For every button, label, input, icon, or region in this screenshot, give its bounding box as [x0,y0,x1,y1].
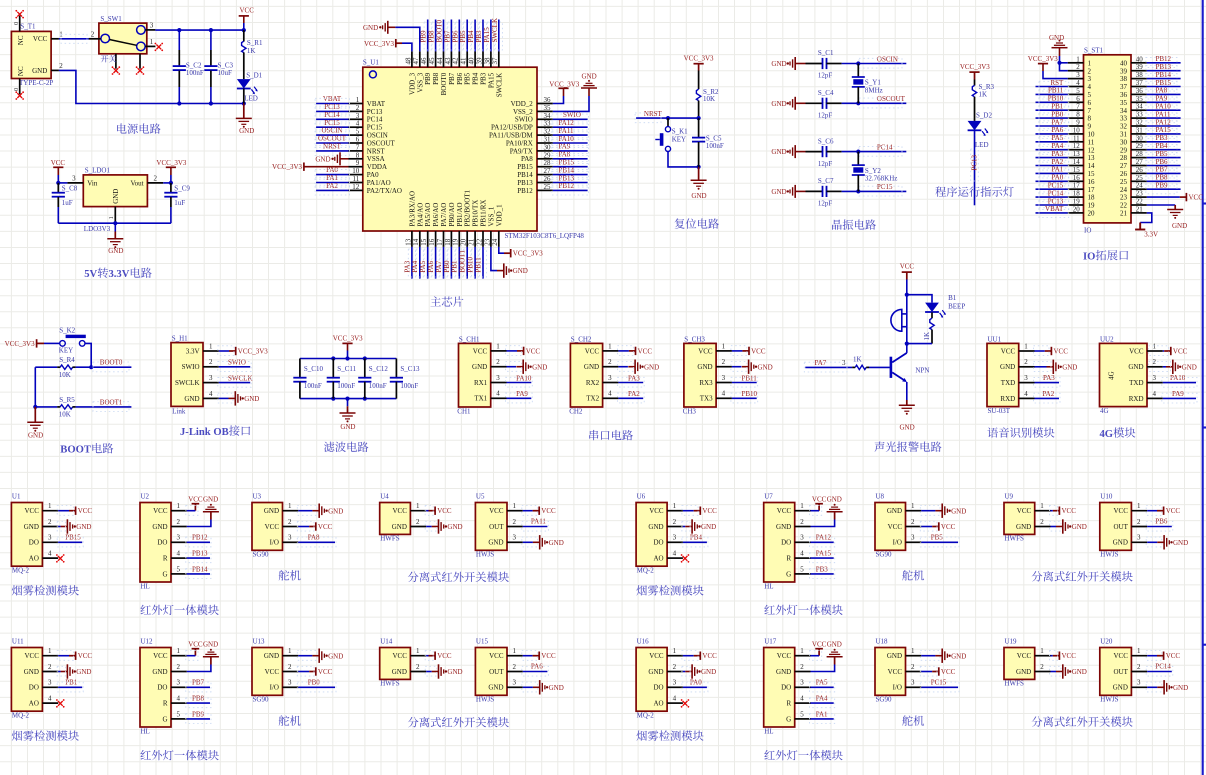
svg-text:VCC: VCC [1113,507,1128,515]
mcu U1 STM32F103C8T6 body [363,58,585,240]
wire VCC_3V3 to pin 48 [396,43,412,51]
svg-text:33: 33 [1136,111,1144,119]
mcu U1 pins right [537,96,553,191]
svg-text:R: R [163,555,168,563]
svg-text:PA12: PA12 [816,534,832,542]
svg-text:4: 4 [1076,79,1080,87]
ground top at U7 [811,496,843,527]
svg-text:PB5: PB5 [459,30,467,43]
svg-text:PB6: PB6 [456,72,464,85]
svg-text:GND: GND [315,156,330,164]
svg-text:GND: GND [549,539,564,547]
power port VCC top right [239,6,255,30]
svg-text:PB7: PB7 [443,30,451,43]
svg-text:14: 14 [1073,158,1081,166]
svg-text:1: 1 [209,342,213,350]
svg-text:GND: GND [24,668,39,676]
svg-text:1: 1 [108,216,115,219]
svg-text:1: 1 [722,342,726,350]
ground symbol above U1 pin 47 [363,21,395,34]
svg-text:13: 13 [404,238,412,246]
svg-text:11: 11 [1088,138,1095,146]
module U9 HWFS body [1004,493,1051,543]
connector T1 TYPE-C-2P [11,16,63,95]
svg-text:PB13: PB13 [517,179,533,187]
caption 红外灯一体模块 row1 [140,605,218,615]
header CH3 body [683,335,732,415]
svg-text:PB13: PB13 [192,550,208,558]
svg-text:UU1: UU1 [988,335,1002,343]
power port VCC_3V3 at LDO output [156,159,186,183]
svg-text:VDD_2: VDD_2 [511,100,534,108]
svg-text:TXD: TXD [1001,379,1015,387]
svg-text:1: 1 [1088,59,1092,67]
power port VCC alarm [900,263,915,295]
module U2 HL body [140,493,187,591]
svg-text:VCC: VCC [649,507,664,515]
wires U1 top pins 46-37 with net labels [420,18,503,51]
svg-text:29: 29 [1120,146,1128,154]
svg-text:S_Y1: S_Y1 [865,79,881,87]
svg-text:GND: GND [28,431,43,439]
svg-text:DO: DO [653,539,663,547]
svg-text:PA2: PA2 [628,390,640,398]
caption 烟雾检测模块 row2 [636,730,703,740]
svg-text:PB1: PB1 [1051,103,1064,111]
svg-text:S_SW1: S_SW1 [100,15,122,23]
svg-text:8: 8 [356,151,360,159]
svg-text:NC: NC [17,66,25,76]
power VCC at U8 pin2 [920,521,955,531]
svg-text:GND: GND [1016,668,1031,676]
svg-text:KEY: KEY [59,346,73,354]
svg-text:GND: GND [584,363,599,371]
power VCC at U5 pin1 [522,506,556,516]
caption IO expansion [1083,250,1128,262]
svg-text:PA1: PA1 [326,174,338,182]
svg-text:VCC: VCC [638,347,653,355]
svg-text:PA4: PA4 [1051,142,1063,150]
svg-text:VCC: VCC [392,652,407,660]
svg-text:GND: GND [1072,668,1087,676]
svg-text:1: 1 [513,502,517,510]
svg-text:35: 35 [1136,95,1144,103]
svg-text:PC13: PC13 [324,103,340,111]
svg-text:VSS_1: VSS_1 [487,206,495,226]
net PB13 wire U2 [186,550,211,563]
caption 红外灯一体模块 row2 [764,750,842,760]
svg-text:J-Link OB: J-Link OB [180,427,229,438]
svg-text:VCC_3V3: VCC_3V3 [333,334,363,342]
svg-text:24: 24 [491,238,499,246]
ground symbol LDO [107,223,123,255]
svg-text:PB15: PB15 [517,163,533,171]
svg-text:KEY: KEY [672,135,686,143]
net PB5 wire U8 [920,534,959,547]
svg-text:PB10: PB10 [467,257,475,273]
svg-text:14: 14 [412,238,420,246]
svg-text:3: 3 [1024,374,1028,382]
svg-text:S_U1: S_U1 [363,58,379,66]
svg-text:2: 2 [177,518,181,526]
svg-text:PA11/USB/DM: PA11/USB/DM [489,132,534,140]
svg-text:PB14: PB14 [559,166,575,174]
LDO bottom rail wire [58,221,171,225]
svg-text:S_H1: S_H1 [172,334,188,342]
mcu U1 pins left [349,96,363,191]
svg-text:PA9/TX: PA9/TX [510,147,533,155]
ground symbol reset [691,167,707,200]
power VCC_3V3 at ST1 pin 3 [1028,55,1068,78]
svg-text:6: 6 [1076,95,1080,103]
svg-text:SWIO: SWIO [563,111,581,119]
svg-text:PA2: PA2 [326,182,338,190]
svg-text:VDD_3: VDD_3 [408,72,416,95]
svg-text:3: 3 [911,534,915,542]
svg-text:GND: GND [1000,363,1015,371]
svg-text:1uF: 1uF [62,199,73,207]
svg-text:GND: GND [1049,34,1064,42]
svg-text:10uF: 10uF [218,69,233,77]
svg-text:VCC: VCC [888,523,903,531]
svg-text:PC14: PC14 [1048,189,1064,197]
svg-text:GND: GND [1182,363,1197,371]
wires ST1 left net labels [1036,79,1069,218]
svg-text:GND: GND [697,363,712,371]
svg-text:TX3: TX3 [700,395,713,403]
svg-text:VCC: VCC [541,507,556,515]
svg-text:19: 19 [1073,198,1081,206]
svg-text:VSSA: VSSA [367,155,385,163]
svg-text:PA9: PA9 [1172,390,1184,398]
wire with net label PC15 [842,183,907,196]
svg-text:VCC: VCC [751,347,766,355]
svg-text:9: 9 [1076,119,1080,127]
svg-text:VCC_3V3: VCC_3V3 [5,340,35,348]
svg-text:U8: U8 [876,493,885,501]
svg-text:25: 25 [544,183,552,191]
ground symbol at S_C4 [771,97,805,110]
net PB1 wire U11 [57,679,83,692]
svg-text:U13: U13 [253,638,266,646]
svg-text:VCC: VCC [318,668,333,676]
svg-text:2: 2 [1137,663,1141,671]
svg-text:SWCLK: SWCLK [491,18,499,43]
svg-text:36: 36 [1120,91,1128,99]
svg-text:PB12: PB12 [517,187,533,195]
svg-text:PA5: PA5 [419,260,427,272]
svg-text:VCC_3V3: VCC_3V3 [1028,55,1058,63]
svg-text:2: 2 [356,104,360,112]
svg-text:1: 1 [177,502,181,510]
svg-text:R: R [787,555,792,563]
header CH2 body [569,335,618,415]
svg-text:4: 4 [722,390,726,398]
svg-text:PB10/TX: PB10/TX [472,200,480,227]
ground at U13 pin1 [297,649,343,663]
svg-text:40: 40 [1120,59,1128,67]
svg-text:26: 26 [1136,166,1144,174]
svg-text:VCC: VCC [1166,652,1181,660]
svg-text:PB8: PB8 [432,72,440,85]
svg-text:8: 8 [1088,115,1092,123]
wire with net label OSCOUT [842,95,907,108]
capacitor C2 100nF [173,30,204,103]
svg-text:S_D2: S_D2 [976,112,992,120]
module U12 HL body [140,638,187,736]
svg-text:4: 4 [800,695,804,703]
svg-text:38: 38 [1136,71,1144,79]
net PA3 wire UU1 [1034,374,1061,387]
svg-text:PA15: PA15 [483,27,491,43]
regulator LDO1 [67,167,163,233]
svg-text:GND: GND [244,395,259,403]
svg-text:G: G [162,715,167,723]
svg-text:S_R5: S_R5 [59,396,75,404]
svg-text:GND: GND [532,363,547,371]
svg-text:5: 5 [800,710,804,718]
svg-text:B1: B1 [948,294,957,302]
svg-text:5: 5 [800,565,804,573]
svg-text:10K: 10K [59,411,71,419]
svg-text:37: 37 [1136,79,1144,87]
svg-text:U7: U7 [764,493,773,501]
svg-text:GND: GND [363,24,378,32]
svg-text:3: 3 [177,679,181,687]
svg-text:PB5: PB5 [931,534,944,542]
svg-text:PA15: PA15 [1156,126,1172,134]
svg-text:AO: AO [29,700,39,708]
svg-text:GND: GND [900,423,915,431]
net PC15 wire U18 [920,679,959,692]
svg-text:10: 10 [1088,131,1096,139]
svg-text:3: 3 [288,679,292,687]
svg-text:27: 27 [544,167,552,175]
svg-text:PA10: PA10 [1170,374,1186,382]
svg-text:PA6/AO: PA6/AO [432,203,440,227]
wire with net label OSCIN [842,55,907,68]
net PB3 wire U7 [810,565,835,578]
svg-text:VDD_1: VDD_1 [495,204,503,227]
svg-text:NRST: NRST [323,143,342,151]
svg-text:HWJS: HWJS [1100,696,1118,704]
svg-text:PC13: PC13 [970,154,978,170]
svg-text:HWJS: HWJS [476,696,494,704]
svg-text:OSCOUT: OSCOUT [877,95,906,103]
net PB11 wire [731,374,758,387]
svg-text:20: 20 [1073,205,1081,213]
ground symbol at S_C1 [771,57,805,70]
svg-text:VCC: VCC [1166,507,1181,515]
svg-text:1: 1 [800,502,804,510]
svg-text:U15: U15 [476,638,489,646]
svg-text:2: 2 [59,62,63,70]
ground at U20 pin3 [1146,680,1188,694]
svg-text:GND: GND [648,668,663,676]
svg-text:12pF: 12pF [818,200,833,208]
svg-text:2: 2 [288,518,292,526]
svg-text:GND: GND [887,652,902,660]
buzzer B1 BEEP [891,294,965,344]
caption 5V to 3.3V circuit [84,267,151,280]
ground symbol at S_C7 [771,185,805,198]
svg-text:2: 2 [1088,67,1092,75]
svg-text:PB12: PB12 [559,182,575,190]
net PA2 wire [617,390,644,403]
svg-text:SG90: SG90 [253,551,269,559]
svg-text:GND: GND [1113,684,1128,692]
svg-text:PB8: PB8 [192,695,205,703]
svg-text:VCC: VCC [153,652,168,660]
svg-text:MQ-2: MQ-2 [12,712,30,720]
svg-text:16: 16 [1088,178,1096,186]
caption 舵机 row2 [902,715,924,725]
left rail wire boot [33,367,37,409]
svg-text:TX1: TX1 [474,395,487,403]
svg-text:4: 4 [48,695,52,703]
svg-text:U5: U5 [476,493,485,501]
svg-text:SWCLK: SWCLK [495,73,503,98]
svg-text:PA10: PA10 [1156,103,1172,111]
svg-text:VDDA: VDDA [367,163,387,171]
ground at U3 pin1 [297,504,343,518]
svg-text:PA9: PA9 [516,390,528,398]
svg-text:40: 40 [1136,55,1144,63]
net PC14 wire U20 [1146,663,1173,676]
svg-text:3.3V: 3.3V [1144,231,1158,239]
svg-text:PA7: PA7 [815,359,827,367]
svg-text:VCC: VCC [239,6,254,14]
svg-text:PA1/AO: PA1/AO [367,179,391,187]
svg-text:2: 2 [1024,358,1028,366]
net PB6 wire U10 [1146,518,1173,531]
svg-text:32: 32 [1136,119,1144,127]
svg-text:21: 21 [1120,210,1128,218]
svg-text:HWFS: HWFS [1005,535,1025,543]
ground at U1 pin 23 [491,247,528,278]
net PB14 wire U2 [186,565,211,578]
svg-text:3: 3 [1153,374,1157,382]
filter top rail [300,356,397,360]
net PB12 wire U2 [186,534,211,547]
net PA15 wire U7 [810,550,835,563]
svg-text:11: 11 [353,175,360,183]
svg-text:3: 3 [513,534,517,542]
svg-text:PB7: PB7 [448,72,456,85]
svg-text:PC15: PC15 [931,679,947,687]
svg-text:VCC: VCC [812,496,827,504]
svg-text:3: 3 [911,679,915,687]
ground at U16 pin2 [682,664,716,678]
svg-text:26: 26 [1120,170,1128,178]
svg-text:4G: 4G [1108,371,1116,380]
net PA1 wire U17 [810,710,835,723]
svg-text:7: 7 [356,143,360,151]
svg-text:2: 2 [608,358,612,366]
svg-text:1: 1 [177,647,181,655]
svg-text:GND: GND [392,668,407,676]
svg-text:IO: IO [1083,251,1095,262]
ground at U14 pin2 [425,664,462,678]
ground at H1 pin4 [218,391,260,405]
svg-text:PA1: PA1 [1051,166,1063,174]
svg-text:PB14: PB14 [1156,71,1172,79]
svg-text:100nF: 100nF [706,142,724,150]
svg-text:37: 37 [1120,83,1128,91]
ground at U1 pin 35 [553,73,597,112]
net PA4 wire U17 [810,695,835,708]
svg-text:HWJS: HWJS [476,551,494,559]
svg-text:3: 3 [800,679,804,687]
svg-text:GND: GND [447,668,462,676]
svg-text:G: G [162,570,167,578]
power VCC_3V3 at H1 pin1 [218,346,268,356]
svg-text:31: 31 [1120,131,1128,139]
svg-text:VCC: VCC [51,159,66,167]
svg-text:19: 19 [1088,202,1096,210]
svg-text:BOOT1: BOOT1 [100,398,123,406]
power VCC at UU1 pin1 [1034,346,1069,356]
wire VCC rail to LED branch [905,293,932,303]
svg-text:VCC: VCC [888,668,903,676]
svg-text:4: 4 [608,390,612,398]
svg-text:1: 1 [513,647,517,655]
svg-text:1: 1 [673,502,677,510]
svg-text:LED: LED [975,141,989,149]
svg-text:35: 35 [544,104,552,112]
svg-text:PA4/AO: PA4/AO [416,203,424,227]
svg-text:VCC: VCC [541,652,556,660]
svg-text:PB4: PB4 [1156,142,1169,150]
ground at U5 pin3 [522,535,564,549]
svg-text:MQ-2: MQ-2 [12,567,30,575]
net PA7 wire and base resistor 1K [804,356,890,372]
svg-text:17: 17 [1073,182,1081,190]
svg-text:4: 4 [209,390,213,398]
svg-text:22: 22 [1136,198,1144,206]
svg-text:GND: GND [951,652,966,660]
svg-text:GND: GND [1173,684,1188,692]
svg-text:HL: HL [141,582,150,590]
power port VCC_3V3 boot [5,339,60,348]
svg-text:1: 1 [288,647,292,655]
svg-text:5: 5 [177,710,181,718]
svg-text:PA3/RX/AO: PA3/RX/AO [408,191,416,227]
svg-text:PA6: PA6 [531,663,543,671]
svg-text:2: 2 [496,358,500,366]
svg-text:46: 46 [420,57,428,65]
module U19 HWFS body [1004,638,1051,688]
svg-text:PB15: PB15 [65,534,81,542]
svg-text:PB9: PB9 [420,30,428,43]
mcu U1 pins bottom [404,231,499,247]
svg-text:PA7: PA7 [435,260,443,272]
svg-text:PB12: PB12 [192,534,208,542]
svg-text:LED: LED [244,94,258,102]
power port VCC_3V3 at U1 pin 36 [549,80,579,103]
svg-text:PA10/RX: PA10/RX [506,139,533,147]
net PB7 wire U12 [186,679,211,692]
svg-text:PC14: PC14 [367,116,383,124]
crystal Y1 8MHz [852,61,883,105]
svg-text:DO: DO [781,684,791,692]
capacitor C8 1uF [52,183,78,223]
no-connect x on T1 bottom pin [15,91,24,100]
svg-text:33: 33 [1120,115,1128,123]
svg-text:OUT: OUT [1114,668,1129,676]
svg-text:PC14: PC14 [324,111,340,119]
caption 分离式红外开关模块 row2 [1032,716,1133,726]
